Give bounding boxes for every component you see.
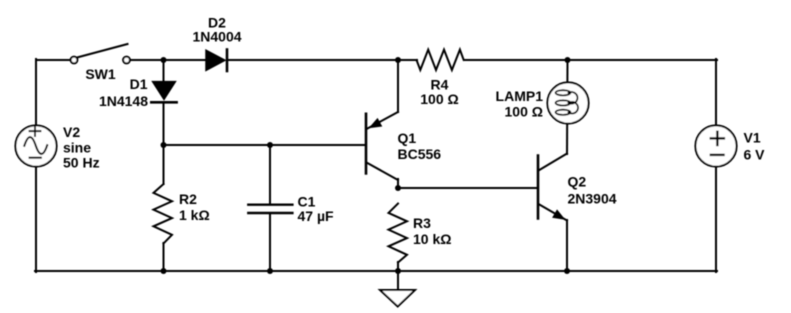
svg-text:V2: V2 [63,124,80,140]
svg-text:V1: V1 [744,130,761,146]
svg-text:6 V: 6 V [744,147,766,163]
svg-text:R2: R2 [179,191,197,207]
wire Q1 node to Q2 base [398,187,538,189]
resistor R2 [154,184,173,244]
node Q1 collector top [395,57,401,63]
wire switch to D2 [130,59,207,61]
diode D2 [206,50,227,72]
node C1 bottom [267,268,273,274]
wire right vertical upper [715,59,717,126]
svg-text:100 Ω: 100 Ω [420,91,458,107]
node D1 bottom [161,142,167,148]
svg-text:1N4148: 1N4148 [99,93,148,109]
DC source V1 [695,125,736,166]
node D1 top [161,57,167,63]
wire Q1 collector vertical [397,60,399,112]
svg-text:sine: sine [63,140,91,156]
svg-text:2N3904: 2N3904 [568,191,617,207]
svg-text:R3: R3 [413,215,431,231]
wire D1 top stub [163,60,165,82]
node R3 bottom / ground [395,268,401,274]
wire C1 bottom [269,213,271,271]
svg-text:LAMP1: LAMP1 [496,88,544,104]
wire Q2 emitter vertical [566,220,568,271]
lamp LAMP1 [547,82,588,123]
resistor R4 [417,50,464,70]
wire R2 bottom stub [163,243,165,271]
node lamp top [565,57,571,63]
svg-text:Q1: Q1 [398,130,417,146]
capacitor C1 [248,205,292,213]
transistor Q2 [538,154,567,221]
svg-text:Q2: Q2 [568,173,587,189]
wire Q1 emitter to node [397,179,399,188]
wire left vertical lower [35,166,37,272]
diode D1 [151,82,176,103]
svg-text:10 kΩ: 10 kΩ [413,231,451,247]
wire left vertical upper [35,59,37,126]
wire D2 to R4 [227,59,417,61]
node Q2 emitter bottom [564,268,570,274]
resistor R3 [389,204,408,263]
AC source V2 [15,125,56,166]
ground [380,290,415,307]
node R2 bottom [161,268,167,274]
wire lamp lead through to Q2 collector [566,60,569,154]
svg-text:50 Hz: 50 Hz [63,155,100,171]
wire R3 bottom stub [397,262,399,271]
svg-text:100 Ω: 100 Ω [505,104,543,120]
wire R4 to top-right corner [464,59,717,61]
svg-text:1N4004: 1N4004 [192,29,241,45]
svg-text:SW1: SW1 [85,66,116,82]
wire D1 to R2 [163,102,165,184]
svg-text:D1: D1 [130,76,148,92]
wire base node to Q1 [164,144,367,146]
switch SW1 [71,44,130,63]
node Q1 emitter / R3 top [395,185,401,191]
svg-text:BC556: BC556 [398,146,442,162]
wire C1 top [269,145,271,204]
wire right vertical lower [715,166,717,272]
svg-text:1 kΩ: 1 kΩ [179,207,210,223]
transistor Q1 [366,112,398,180]
wire ground stub [397,271,399,290]
node C1 top [267,142,273,148]
svg-text:47 µF: 47 µF [298,208,335,224]
wire top-left to switch [36,59,71,61]
wire bottom rail [35,270,717,272]
